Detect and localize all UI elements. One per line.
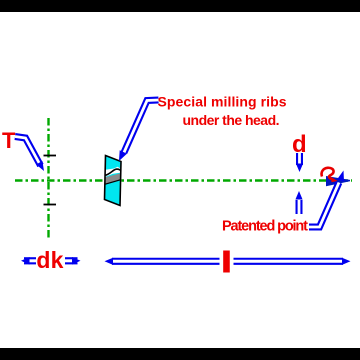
screw head (countersunk, cyan) — [104, 156, 122, 206]
svg-text:Patented point: Patented point — [222, 219, 308, 235]
dimension d upper arrow — [296, 153, 303, 172]
leader from text to head ribs — [119, 100, 159, 161]
wire: head diameter tick upper on vertical axis — [44, 155, 57, 157]
node: horizontal centerline — [15, 179, 352, 181]
svg-text:dk: dk — [36, 247, 63, 273]
label l — [220, 249, 234, 274]
letterbox bar bottom — [0, 348, 360, 360]
red swirl (screwing motion) at tip — [322, 168, 334, 179]
svg-text:Special milling ribs: Special milling ribs — [158, 94, 287, 110]
svg-text:l: l — [223, 247, 230, 277]
leader arrow from T to axis cross — [15, 137, 44, 172]
leader from Patented point to tip — [309, 171, 344, 228]
screw tip needle (patented point) — [326, 176, 350, 186]
node: vertical centerline (front-view axis) — [47, 118, 49, 239]
dimension l (screw length) — [105, 258, 351, 265]
letterbox bar top — [0, 0, 360, 12]
dimension d lower arrow — [295, 191, 302, 214]
svg-text:T: T — [2, 128, 16, 153]
dimension dk (head diameter) — [21, 257, 81, 265]
svg-text:under the head.: under the head. — [183, 112, 280, 128]
wire: head diameter tick lower on vertical axis — [44, 204, 57, 206]
